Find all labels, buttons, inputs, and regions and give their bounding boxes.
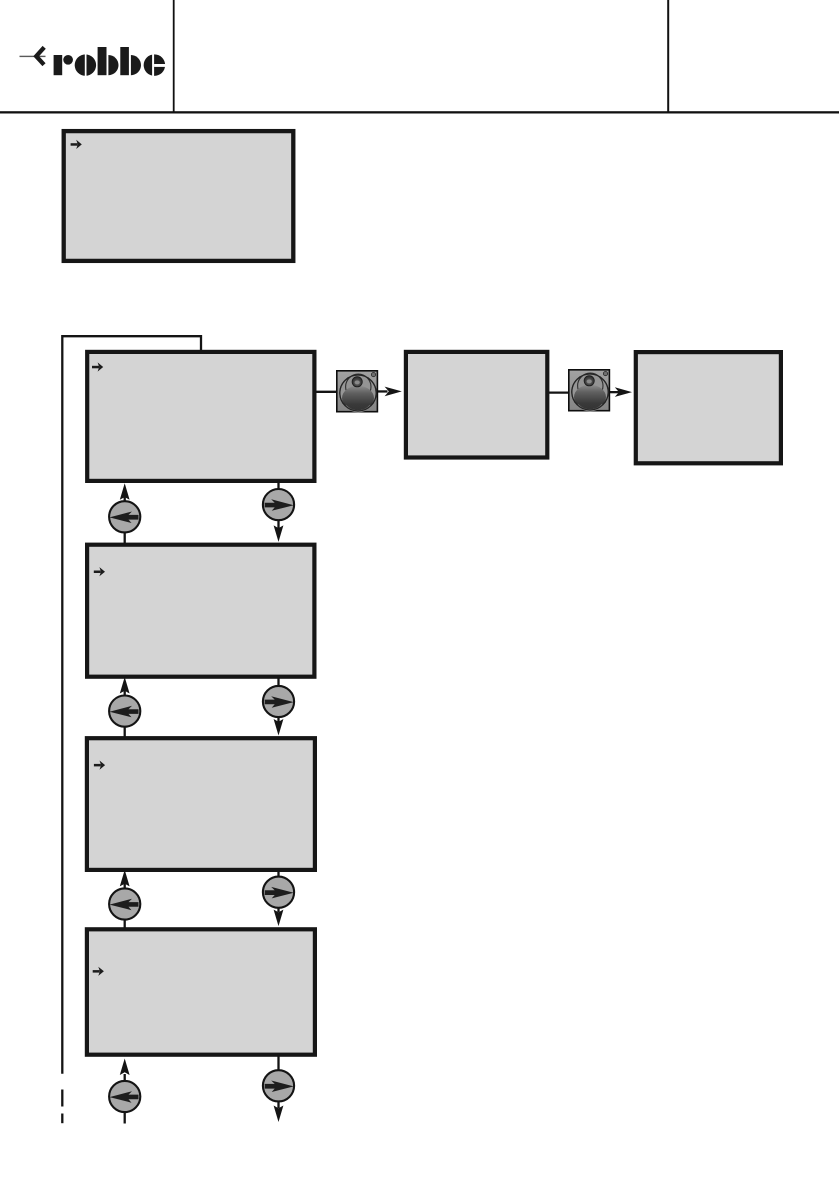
rotary knob icon 2	[569, 370, 610, 411]
arrow knob 1 to box 3	[378, 387, 402, 397]
button down-arrow circle pair 2	[263, 686, 294, 717]
wire pair 1 left (up)	[120, 483, 130, 544]
cursor arrow in box 5	[94, 567, 105, 576]
button down-arrow circle pair 4	[263, 1070, 294, 1101]
wire pair 2 right (down)	[274, 677, 284, 736]
cursor arrow in box 2	[92, 362, 103, 371]
logo letter o	[75, 54, 96, 75]
logo plane chevron	[36, 47, 44, 64]
logo letter b second	[120, 47, 129, 75]
logo plane line	[20, 56, 46, 57]
loop-back wire dashed continuation	[61, 1090, 63, 1107]
loop-back wire from bottom to box 2 top	[62, 336, 201, 1074]
wire box 3 to rotary knob 2	[549, 391, 569, 393]
wire pair 2 left (up)	[120, 677, 130, 738]
box 5 display screen	[87, 545, 314, 677]
box 7 display screen	[87, 929, 315, 1054]
button up-arrow circle pair 3	[109, 888, 140, 919]
box 4 display screen (row 2 right)	[636, 352, 781, 463]
button down-arrow circle pair 1	[263, 489, 294, 520]
button down-arrow circle pair 3	[263, 877, 294, 908]
box 1 display screen (top)	[64, 131, 294, 261]
logo letter e	[144, 54, 166, 76]
box 2 display screen (row 2 left)	[87, 352, 314, 481]
wire pair 4 right (down, continues off page)	[274, 1055, 284, 1122]
wire pair 4 left (up, continues off page)	[120, 1059, 130, 1124]
wire box 2 to rotary knob 1	[316, 391, 337, 393]
wire pair 3 left (up)	[120, 870, 130, 929]
cursor arrow in box 7	[93, 967, 104, 976]
logo letter r	[54, 55, 63, 75]
button up-arrow circle pair 4	[109, 1081, 140, 1112]
box 6 display screen	[87, 738, 315, 870]
arrow knob 2 to box 4	[609, 387, 632, 397]
cursor arrow in box 6	[94, 761, 105, 770]
wire pair 1 right (down)	[274, 481, 284, 542]
box 3 display screen (row 2 middle)	[406, 352, 547, 458]
header divider vertical line right	[667, 0, 669, 112]
button up-arrow circle pair 1	[109, 501, 140, 532]
logo letter b first	[98, 47, 107, 75]
header bottom horizontal rule	[0, 111, 839, 113]
rotary knob icon 1	[337, 371, 378, 412]
robbe logo	[20, 47, 166, 76]
button up-arrow circle pair 2	[109, 696, 140, 727]
cursor arrow in box 1	[71, 140, 82, 149]
wire pair 3 right (down)	[274, 870, 284, 926]
header divider vertical line left	[173, 0, 175, 112]
